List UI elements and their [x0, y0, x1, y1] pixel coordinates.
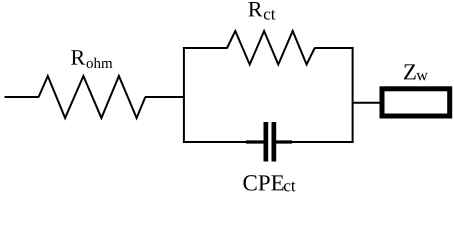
wire: R_ct to node B (top-right segment) — [314, 47, 353, 49]
wire: top-left segment to R_ct — [183, 47, 228, 49]
resistor R_ohm — [39, 76, 146, 118]
wire: left input lead — [5, 96, 40, 98]
node A: left junction of parallel branch — [183, 47, 185, 143]
node B: right junction of parallel branch — [352, 47, 354, 143]
wire: node B to Warburg element — [353, 102, 381, 104]
label CPE_ct — [243, 175, 295, 191]
wire: bottom-left segment to CPE — [183, 141, 264, 143]
label R_ohm — [71, 50, 112, 68]
label R_ct — [248, 2, 275, 20]
wire: R_ohm to node A — [145, 96, 185, 98]
wire: CPE to node B (bottom-right segment) — [276, 140, 354, 143]
resistor R_ct — [227, 31, 315, 65]
warburg element Z_w (box) — [382, 89, 450, 116]
capacitor CPE_ct (constant phase element plates) — [264, 122, 277, 162]
label Z_w — [404, 64, 428, 80]
